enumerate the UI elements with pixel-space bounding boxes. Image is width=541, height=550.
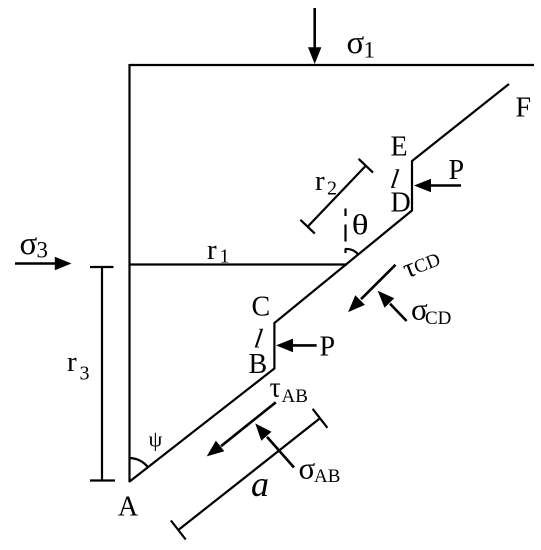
svg-text:a: a (251, 464, 269, 504)
svg-text:ψ: ψ (149, 427, 163, 452)
svg-text:3: 3 (37, 238, 49, 263)
svg-text:F: F (516, 93, 532, 124)
svg-text:τ: τ (270, 373, 281, 404)
svg-text:C: C (252, 292, 271, 323)
svg-text:r: r (207, 234, 217, 266)
svg-text:σ: σ (347, 25, 365, 61)
svg-text:A: A (118, 492, 139, 523)
svg-text:r: r (67, 346, 77, 378)
svg-text:1: 1 (220, 246, 230, 268)
svg-text:AB: AB (314, 466, 340, 487)
svg-text:2: 2 (327, 177, 337, 199)
svg-text:P: P (449, 155, 465, 186)
svg-text:σ: σ (20, 226, 38, 262)
svg-text:AB: AB (282, 386, 308, 407)
svg-text:B: B (249, 349, 268, 380)
svg-text:CD: CD (425, 308, 451, 329)
svg-text:θ: θ (352, 209, 369, 240)
svg-text:σ: σ (299, 451, 316, 486)
svg-text:r: r (315, 165, 325, 197)
svg-text:1: 1 (364, 37, 376, 62)
svg-text:E: E (391, 132, 408, 163)
svg-text:3: 3 (80, 363, 90, 385)
svg-text:P: P (320, 332, 336, 363)
